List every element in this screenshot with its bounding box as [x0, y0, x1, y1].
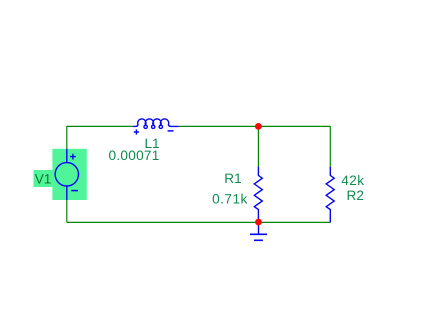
- selection highlight V1 label: [34, 170, 53, 187]
- resistor R1: [254, 167, 262, 222]
- svg-text:42k: 42k: [341, 173, 364, 188]
- voltage source V1: [55, 149, 78, 200]
- wire top-left segment: [67, 125, 133, 127]
- svg-text:R2: R2: [347, 188, 364, 203]
- wire top-right segment: [179, 125, 331, 127]
- wire left vertical lower: [66, 200, 68, 222]
- wire bottom: [67, 221, 331, 223]
- svg-text:V1: V1: [35, 172, 52, 187]
- wire right branch (node to R2): [329, 126, 331, 167]
- resistor R2: [326, 167, 334, 223]
- svg-text:0.71k: 0.71k: [212, 192, 248, 207]
- junction node top: [255, 123, 262, 130]
- wire middle branch (node to R1): [257, 126, 259, 166]
- svg-text:0.00071: 0.00071: [109, 148, 160, 163]
- junction node bottom: [255, 219, 262, 226]
- selection highlight V1 body: [52, 149, 86, 200]
- svg-text:R1: R1: [224, 171, 241, 186]
- inductor L1: [133, 119, 179, 135]
- wire left vertical upper: [66, 126, 68, 149]
- ground: [250, 222, 267, 240]
